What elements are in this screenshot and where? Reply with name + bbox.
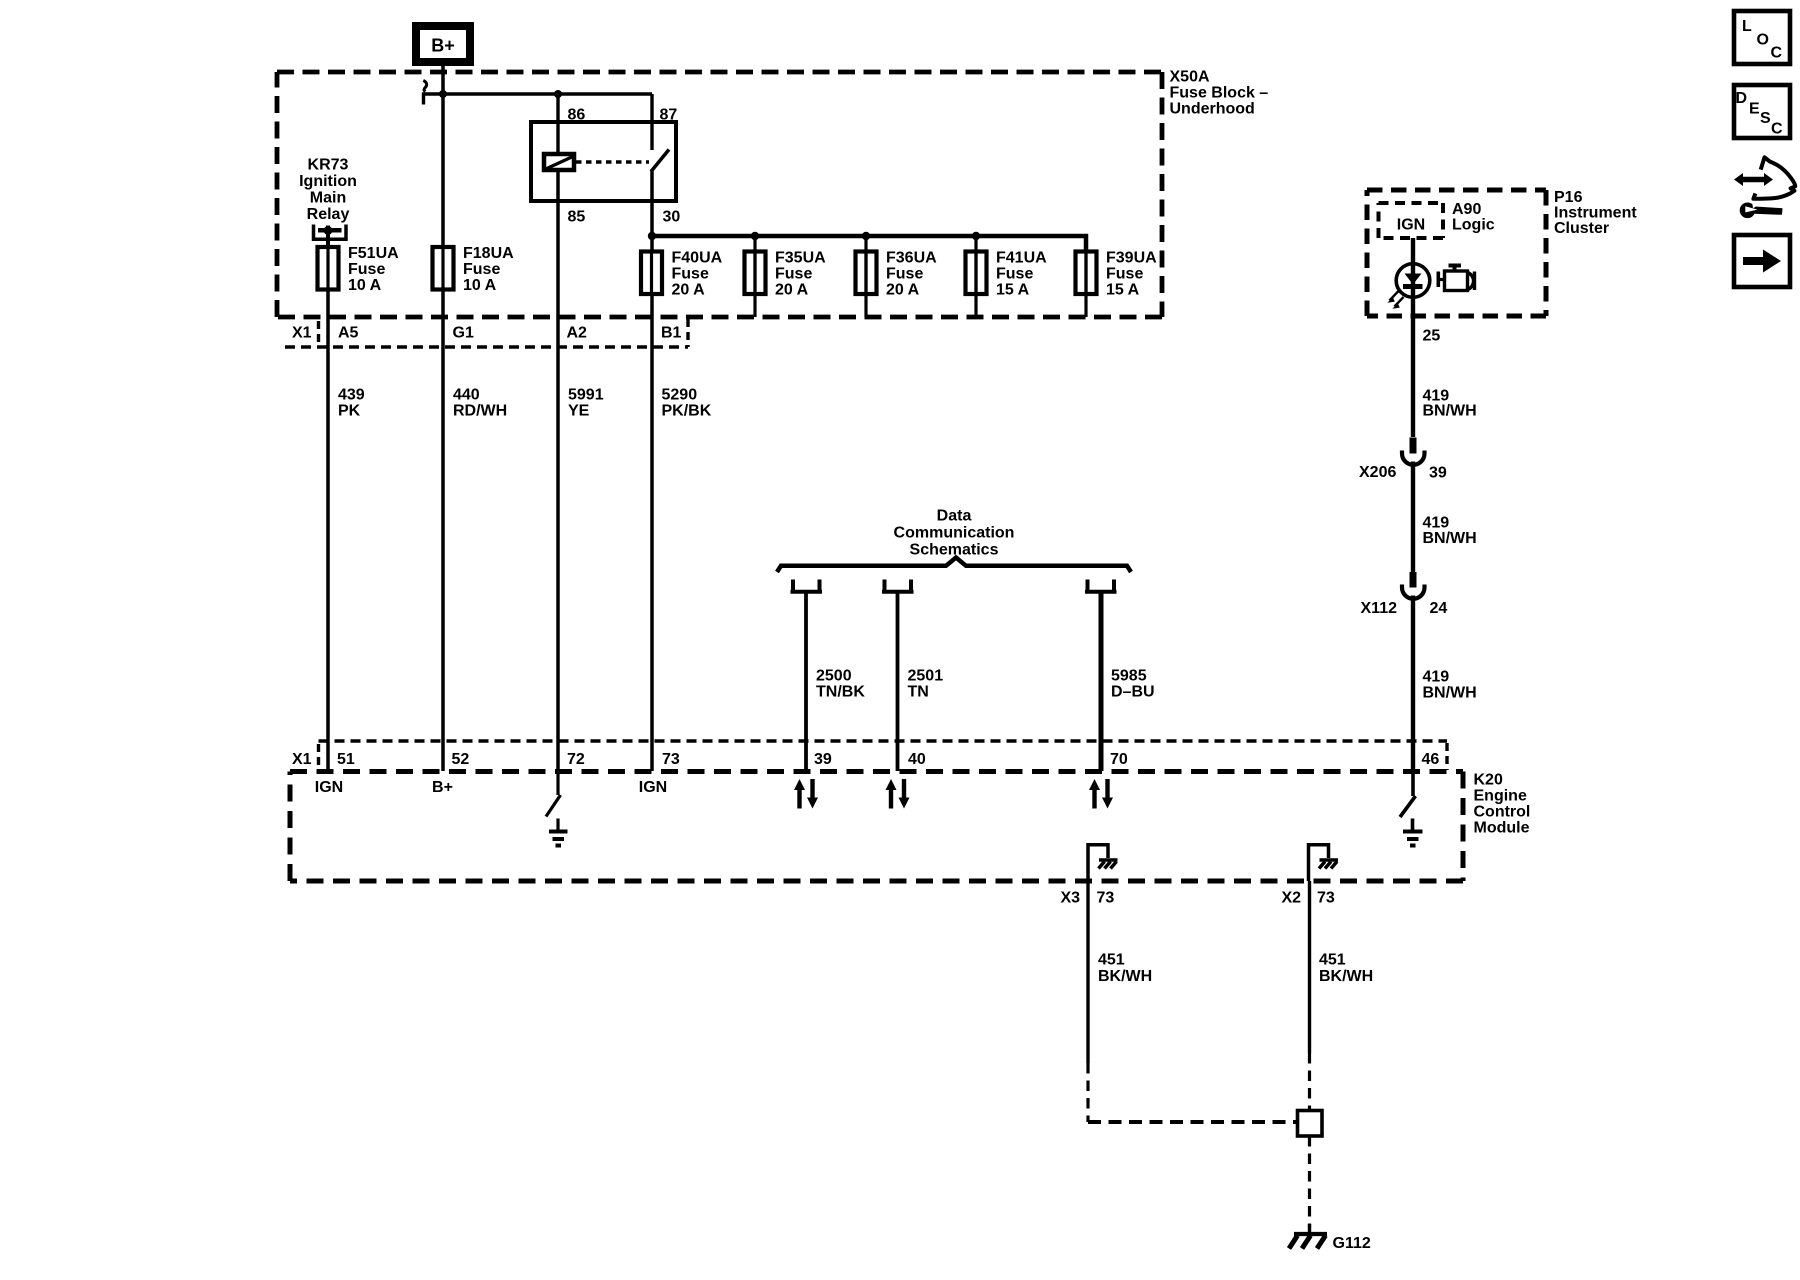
junction node at 86 [554,90,562,98]
ground at 72 [549,832,568,846]
svg-text:X3: X3 [1061,890,1081,907]
svg-text:IGN: IGN [639,779,667,796]
LED cathode bar [1403,284,1423,289]
node IGN dashed box [1379,203,1444,238]
svg-text:C: C [1771,45,1783,62]
chassis ground X2 goalpost [1309,845,1339,881]
wire coil to pin 85 down [556,171,560,771]
fuse F39UA [1076,249,1158,298]
label X50A Fuse Block Underhood [1170,69,1269,118]
wire 2500 TN/BK [804,592,808,771]
svg-text:F40UA: F40UA [672,249,723,266]
svg-text:20 A: 20 A [775,281,809,298]
svg-text:E: E [1749,101,1760,118]
svg-text:451: 451 [1319,952,1346,969]
wire fuse bus from pin 30 [652,236,1086,252]
svg-text:B1: B1 [661,325,682,342]
svg-text:BN/WH: BN/WH [1423,685,1477,702]
svg-text:52: 52 [452,751,470,768]
icon double arrow [1734,173,1773,186]
fuse F51UA [318,245,400,294]
svg-text:Engine: Engine [1474,788,1527,805]
svg-text:F36UA: F36UA [886,249,937,266]
svg-text:Fuse: Fuse [672,265,709,282]
svg-text:20 A: 20 A [886,281,920,298]
wire pin 30 down [650,171,654,771]
svg-text:46: 46 [1422,751,1440,768]
label Data Communication Schematics [894,508,1015,559]
svg-text:5290: 5290 [662,387,698,404]
svg-text:Control: Control [1474,804,1531,821]
svg-text:K20: K20 [1474,772,1503,789]
wire 2501 TN [896,592,900,771]
wire 439 PK [338,387,712,420]
power symbol B+ [416,26,470,62]
wire 451 right solid [1308,881,1311,1053]
svg-text:419: 419 [1423,669,1450,686]
svg-text:419: 419 [1423,515,1450,532]
icon pointer scribble [1753,157,1795,199]
svg-text:Schematics: Schematics [910,542,999,559]
wire 451 right dashed [1308,1053,1311,1109]
svg-text:72: 72 [567,751,585,768]
fuse F41UA [966,249,1048,298]
curl page-continuation hook [424,94,443,105]
wire 419 BN/WH upper [1423,388,1477,420]
label K20 Engine Control Module [1474,772,1531,837]
svg-text:PK/BK: PK/BK [662,403,712,420]
fuse F18UA [433,245,515,294]
icon LOC box [1734,11,1790,64]
connector row X1 fuse block [285,319,688,347]
ground switch at pin 46 [1400,771,1416,830]
relay coil [544,154,574,170]
connector stub at 2500 [791,580,823,592]
relay KR73 coil terminal symbol [314,225,347,248]
wire F35UA drop [753,236,756,317]
coil diagonal [543,156,576,171]
node bus at F36UA [862,232,870,240]
svg-text:YE: YE [568,403,590,420]
wire 5985 D-BU [1099,592,1104,771]
svg-text:X206: X206 [1359,464,1396,481]
svg-text:39: 39 [814,751,832,768]
label P16 Instrument Cluster [1554,189,1637,237]
fuse F40UA [641,249,723,298]
relay switch blade [651,150,669,172]
instrument cluster P16 dashed box [1367,190,1546,316]
connector X206 [1410,438,1417,454]
svg-text:X50A: X50A [1170,69,1210,86]
svg-text:85: 85 [568,209,586,226]
svg-text:A90: A90 [1452,201,1481,218]
wire B+ down from B+ box [441,59,445,247]
node bus at F40UA [648,232,656,240]
svg-text:40: 40 [908,751,926,768]
node bus at F35UA [751,232,759,240]
svg-text:25: 25 [1423,328,1441,345]
coil-contact dashed link [576,160,649,163]
svg-text:73: 73 [1097,890,1115,907]
wire IGN to indicator [1411,238,1415,437]
svg-text:RD/WH: RD/WH [453,403,507,420]
svg-text:Data: Data [937,508,972,525]
wire 419 BN/WH lower to pin 46 [1411,596,1415,772]
svg-text:Module: Module [1474,820,1530,837]
svg-text:20 A: 20 A [672,281,706,298]
svg-text:Fuse: Fuse [1106,265,1143,282]
brace [777,558,1131,573]
svg-text:2501: 2501 [908,668,944,685]
svg-text:F39UA: F39UA [1106,249,1157,266]
svg-text:B+: B+ [432,779,453,796]
svg-text:IGN: IGN [315,779,343,796]
svg-text:15 A: 15 A [996,281,1030,298]
node bus at F41UA [972,232,980,240]
svg-text:F41UA: F41UA [996,249,1047,266]
label 451 BK/WH left [1098,952,1152,986]
wire to relay coil pin 86 [556,94,559,154]
svg-text:BK/WH: BK/WH [1098,968,1152,985]
svg-text:Underhood: Underhood [1170,101,1255,118]
svg-text:86: 86 [568,107,586,124]
svg-text:BK/WH: BK/WH [1319,968,1373,985]
svg-text:Ignition: Ignition [299,173,357,190]
relay KR71 box [531,122,676,201]
svg-text:Main: Main [310,190,346,207]
ground at 46 [1403,832,1423,846]
bidirectional data arrows at 1101 [1089,779,1113,809]
wire bus from B+ to relay pins 86,87 [443,92,652,95]
svg-text:TN/BK: TN/BK [816,684,865,701]
svg-text:BN/WH: BN/WH [1423,403,1477,420]
svg-text:451: 451 [1098,952,1125,969]
svg-text:Fuse: Fuse [886,265,923,282]
svg-text:Logic: Logic [1452,217,1495,234]
bidirectional data arrows at 806 [794,779,818,809]
svg-text:Communication: Communication [894,525,1015,542]
svg-text:70: 70 [1110,751,1128,768]
ground G112 [1289,1224,1327,1249]
svg-text:24: 24 [1430,600,1448,617]
module K20 dashed box [290,772,1463,882]
svg-text:73: 73 [1317,890,1335,907]
svg-text:15 A: 15 A [1106,281,1140,298]
svg-text:10 A: 10 A [348,277,382,294]
svg-text:D: D [1736,90,1748,107]
svg-text:30: 30 [663,209,681,226]
wire F39UA drop [1084,251,1087,317]
svg-text:39: 39 [1429,465,1447,482]
svg-text:Fuse Block –: Fuse Block – [1170,85,1269,102]
svg-text:X112: X112 [1361,600,1398,617]
icon wrench [1740,202,1783,219]
svg-text:PK: PK [338,403,361,420]
svg-text:87: 87 [660,107,678,124]
wire 419 BN/WH middle [1411,462,1415,573]
icon DESC box [1734,85,1790,138]
svg-text:X2: X2 [1282,890,1302,907]
svg-text:Instrument: Instrument [1554,205,1637,222]
label A90 Logic [1452,201,1495,234]
svg-text:439: 439 [338,387,365,404]
connector row X1 K20 [319,739,1448,742]
svg-text:2500: 2500 [816,668,852,685]
fuse block X50A dashed box [277,72,1162,317]
svg-text:C: C [1771,121,1783,138]
wire KR73 to fuse F51UA and pin 51 [326,240,330,771]
svg-text:O: O [1757,32,1769,49]
svg-text:IGN: IGN [1397,217,1425,234]
svg-text:KR73: KR73 [308,157,349,174]
connector stub at 5985 [1085,580,1117,592]
svg-text:G1: G1 [453,325,474,342]
svg-text:5985: 5985 [1111,668,1147,685]
wire F36UA drop [864,236,867,317]
svg-text:73: 73 [662,751,680,768]
svg-text:10 A: 10 A [463,277,497,294]
svg-text:D–BU: D–BU [1111,684,1155,701]
connector X3 pin 73 [1061,890,1335,907]
svg-text:TN: TN [908,684,929,701]
svg-text:F18UA: F18UA [463,245,514,262]
wire dashed to G112 [1308,1136,1311,1228]
svg-text:X1: X1 [292,751,312,768]
bidirectional data arrows at 897.5 [886,779,910,809]
svg-text:440: 440 [453,387,480,404]
wire 451 left solid [1086,881,1089,1063]
svg-text:A5: A5 [338,325,359,342]
connector X112 [1410,572,1417,588]
ground switch at pin 72 [546,771,561,830]
engine icon [1437,264,1477,291]
svg-text:Fuse: Fuse [775,265,812,282]
relay KR73 label [299,157,357,224]
label 451 BK/WH right [1319,952,1373,986]
node KR73 wire junction [324,226,333,235]
icon arrow box [1734,235,1790,287]
svg-text:L: L [1742,18,1752,35]
wire F18UA to pin 52 [441,289,445,771]
svg-text:F35UA: F35UA [775,249,826,266]
wire dashed horizontal to splice [1088,1120,1296,1124]
svg-text:S: S [1760,110,1771,127]
splice box [1298,1111,1323,1137]
wire 451 left dashed [1086,1063,1089,1122]
svg-text:Relay: Relay [307,206,350,223]
svg-text:G112: G112 [1333,1235,1371,1252]
svg-text:5991: 5991 [568,387,604,404]
svg-text:P16: P16 [1554,189,1583,206]
LED light arrows [1390,291,1404,307]
junction node at B+ [439,90,447,98]
svg-text:BN/WH: BN/WH [1423,530,1477,547]
wire F41UA drop [974,236,977,317]
svg-text:X1: X1 [292,325,312,342]
svg-text:F51UA: F51UA [348,245,399,262]
chassis ground X3 goalpost [1088,845,1118,881]
wire to relay pin 87 [650,94,653,150]
svg-text:Fuse: Fuse [463,261,500,278]
svg-text:51: 51 [337,751,355,768]
svg-text:A2: A2 [567,325,588,342]
svg-text:Fuse: Fuse [348,261,385,278]
svg-text:Cluster: Cluster [1554,220,1609,237]
fuse F35UA [745,249,827,298]
svg-text:B+: B+ [431,35,455,55]
indicator LED circle [1396,264,1430,298]
connector stub at 2501 [882,580,914,592]
svg-text:Fuse: Fuse [996,265,1033,282]
LED triangle [1405,274,1422,285]
fuse F36UA [856,249,938,298]
